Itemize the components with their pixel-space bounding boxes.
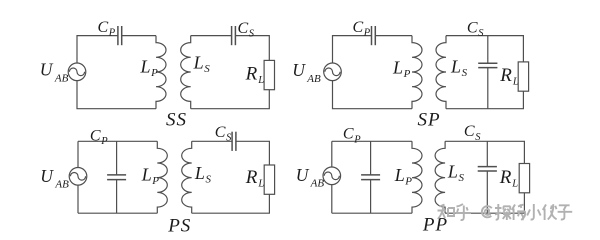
svg-text:R: R (499, 167, 512, 188)
svg-text:L: L (450, 57, 461, 77)
svg-text:P: P (404, 176, 412, 188)
svg-text:L: L (193, 52, 204, 72)
svg-text:C: C (98, 19, 109, 36)
svg-text:S: S (226, 132, 232, 143)
svg-text:P: P (403, 68, 411, 80)
svg-text:L: L (257, 75, 264, 86)
svg-text:U: U (40, 166, 54, 186)
svg-text:S: S (206, 174, 212, 186)
svg-text:P: P (100, 136, 108, 147)
svg-text:L: L (141, 164, 152, 184)
svg-text:AB: AB (310, 177, 325, 189)
svg-text:AB: AB (54, 179, 69, 191)
svg-text:L: L (447, 161, 458, 181)
svg-text:U: U (40, 60, 54, 80)
svg-text:P: P (151, 175, 159, 187)
svg-text:P: P (150, 67, 158, 79)
svg-text:C: C (215, 124, 226, 141)
svg-text:U: U (292, 60, 306, 80)
svg-text:P: P (363, 28, 371, 39)
svg-text:U: U (296, 165, 310, 185)
svg-text:SP: SP (418, 110, 441, 131)
svg-text:R: R (499, 65, 512, 86)
svg-text:C: C (464, 123, 475, 140)
svg-text:P: P (108, 28, 116, 39)
svg-text:L: L (140, 56, 151, 76)
svg-text:L: L (511, 179, 518, 190)
svg-text:L: L (194, 163, 205, 183)
svg-text:C: C (467, 20, 478, 37)
svg-text:S: S (478, 28, 484, 39)
svg-text:S: S (475, 132, 481, 143)
svg-text:C: C (343, 126, 354, 143)
svg-text:L: L (257, 179, 264, 190)
svg-text:AB: AB (306, 73, 321, 85)
svg-text:P: P (353, 134, 361, 145)
svg-text:S: S (462, 67, 468, 79)
svg-text:C: C (238, 20, 249, 37)
svg-text:C: C (90, 127, 101, 144)
svg-text:L: L (512, 76, 519, 87)
svg-text:R: R (245, 167, 258, 188)
svg-text:L: L (392, 58, 403, 78)
svg-text:R: R (245, 63, 258, 84)
svg-text:AB: AB (54, 72, 69, 84)
svg-text:SS: SS (166, 110, 187, 131)
svg-text:S: S (459, 172, 465, 184)
svg-text:L: L (394, 165, 405, 185)
svg-text:S: S (204, 63, 210, 75)
svg-text:PS: PS (167, 216, 191, 237)
svg-text:S: S (249, 29, 255, 40)
svg-text:C: C (353, 19, 364, 36)
